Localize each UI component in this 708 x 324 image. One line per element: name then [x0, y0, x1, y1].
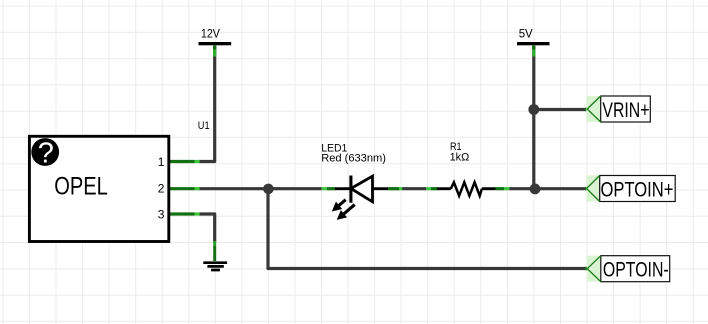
pin OPTOIN- tip — [585, 267, 590, 271]
svg-text:Red (633nm): Red (633nm) — [321, 152, 386, 164]
pin R1 right — [496, 187, 505, 190]
pin U1-3 — [168, 212, 195, 215]
svg-text:5V: 5V — [519, 28, 533, 40]
wire 5V vertical — [532, 46, 535, 189]
junction node VRIN+ — [528, 104, 539, 115]
svg-text:?: ? — [38, 137, 54, 169]
LED LED1 — [335, 187, 350, 190]
svg-text:OPTOIN+: OPTOIN+ — [601, 177, 674, 202]
wire junction down to OPTOIN- — [268, 189, 586, 269]
junction node pin2 — [263, 184, 274, 195]
pin 5V — [532, 46, 535, 50]
power symbol 12V bar — [199, 42, 232, 45]
svg-text:12V: 12V — [201, 28, 220, 40]
U1 question-mark badge — [31, 138, 59, 166]
svg-text:VRIN+: VRIN+ — [602, 97, 649, 122]
wire main horizontal net from pin2 to OPTOIN+ — [199, 187, 586, 190]
svg-text:OPTOIN-: OPTOIN- — [603, 257, 669, 282]
resistor R1 — [437, 187, 451, 190]
svg-text:U1: U1 — [198, 120, 210, 132]
pin R1 left — [431, 187, 437, 190]
wire 12V vertical to pin1 — [199, 46, 215, 162]
wire VRIN+ branch — [534, 108, 586, 111]
svg-text:OPEL: OPEL — [54, 172, 108, 200]
pin OPTOIN+ tip — [585, 187, 590, 191]
net label OPTOIN- — [587, 256, 670, 282]
svg-text:1: 1 — [158, 155, 165, 169]
net label OPTOIN+ — [586, 176, 675, 202]
junction node OPTOIN+ — [530, 184, 541, 195]
LED light arrow 1 — [339, 200, 346, 206]
pin VRIN+ tip — [585, 108, 590, 112]
pin 12V — [213, 46, 216, 50]
pin LED left — [327, 187, 336, 190]
power symbol 5V bar — [517, 42, 550, 45]
IC U1 box — [29, 136, 168, 241]
svg-text:3: 3 — [158, 208, 165, 222]
LED light arrow 2 — [343, 205, 354, 215]
svg-text:2: 2 — [158, 181, 165, 195]
wire pin3 to ground — [199, 214, 215, 242]
pin U1-2 — [168, 187, 195, 190]
pin LED right — [388, 187, 399, 190]
svg-text:1kΩ: 1kΩ — [450, 152, 470, 164]
net label VRIN+ — [586, 96, 650, 122]
ground symbol — [203, 263, 227, 270]
pin U1-1 — [168, 160, 195, 163]
pin ground — [213, 246, 216, 261]
